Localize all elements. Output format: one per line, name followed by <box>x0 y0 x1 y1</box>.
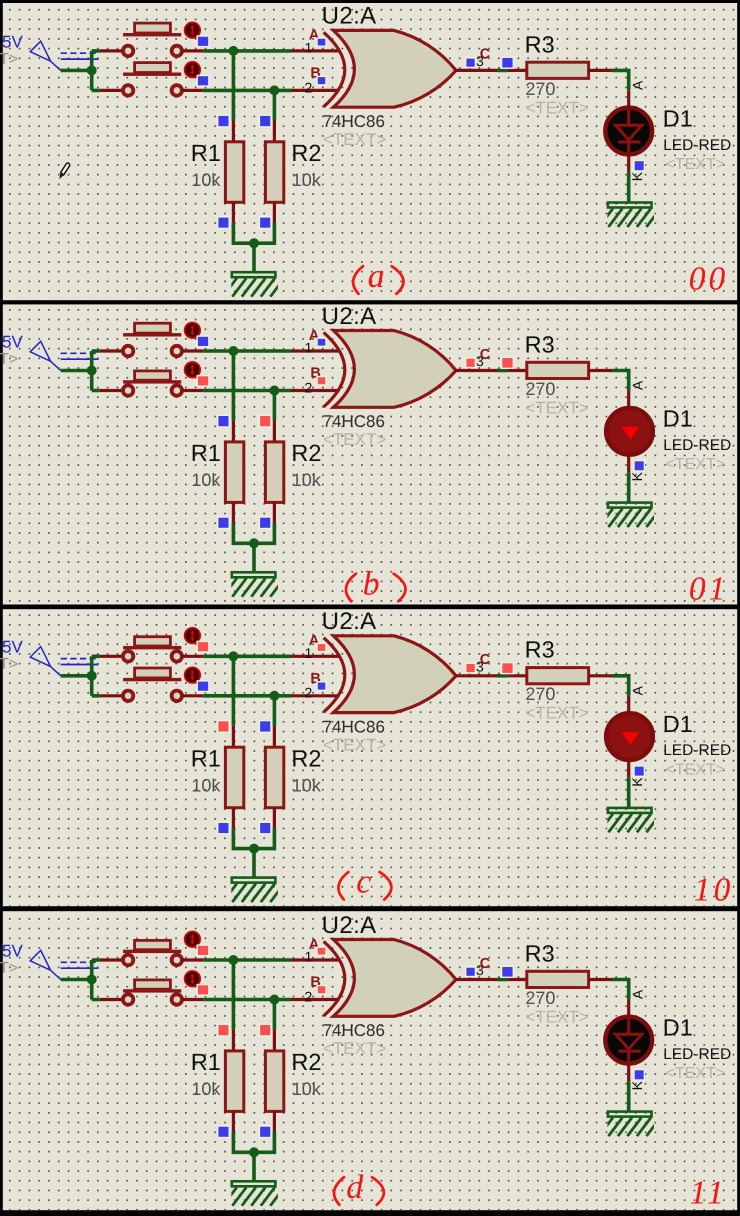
pin 1 stub U2:A <box>291 49 340 52</box>
power terminal 5V <box>0 32 99 70</box>
wire D1 to ground <box>627 472 631 503</box>
probe square pin A <box>317 947 326 955</box>
svg-text:R3: R3 <box>525 331 555 357</box>
probe square pin B <box>317 377 326 386</box>
resistor R2 <box>265 142 283 203</box>
R3 right lead <box>589 674 612 677</box>
wire net A <box>203 49 291 53</box>
wire stub to button B <box>100 389 124 392</box>
wire net C <box>497 369 507 373</box>
probe square A <box>197 641 209 652</box>
probe square R2 top <box>259 115 271 127</box>
svg-text:<TEXT>: <TEXT> <box>323 430 386 449</box>
svg-text:T>: T> <box>0 351 18 368</box>
svg-text:2: 2 <box>305 988 313 1004</box>
R2 bottom lead <box>273 808 276 829</box>
probe square A <box>197 36 209 47</box>
svg-text:C: C <box>480 47 491 63</box>
R3 left lead <box>507 674 527 677</box>
svg-text:LED-RED: LED-RED <box>663 437 731 454</box>
op-amp U2:A XOR gate 74HC86 <box>324 940 456 1017</box>
svg-text:U2:A: U2:A <box>322 303 377 330</box>
ground mid <box>223 878 284 903</box>
probe square A <box>197 336 209 347</box>
pin 1 stub U2:A <box>291 655 340 658</box>
wire button B out <box>182 694 204 697</box>
pin 3 stub U2:A <box>456 369 498 372</box>
junction node B <box>269 995 279 1005</box>
wire 5V feed <box>61 351 100 391</box>
svg-text:5V: 5V <box>2 941 23 960</box>
wire button B out <box>182 998 204 1001</box>
probe square net C <box>502 966 514 977</box>
probe square cathode <box>634 461 644 471</box>
wire net A <box>203 958 291 962</box>
ground LED <box>599 1112 661 1137</box>
junction node B <box>269 85 279 95</box>
svg-text:K: K <box>629 1080 645 1090</box>
R1 top lead <box>232 726 235 747</box>
svg-text:<TEXT>: <TEXT> <box>666 1065 726 1082</box>
probe square R2 top <box>259 1024 271 1036</box>
D1 anode lead <box>627 90 630 106</box>
svg-text:C: C <box>480 347 491 363</box>
svg-text:74HC86: 74HC86 <box>323 412 385 431</box>
probe square net C <box>502 663 514 674</box>
wire 5V feed <box>61 51 100 91</box>
probe square cathode <box>634 161 644 171</box>
R1 bottom lead <box>232 202 235 223</box>
power terminal 5V <box>0 332 99 370</box>
probe square R1 bottom <box>218 517 230 529</box>
R1 bottom lead <box>232 808 235 829</box>
svg-text:<TEXT>: <TEXT> <box>323 130 386 149</box>
ground mid <box>223 572 284 597</box>
pin 2 stub U2:A <box>291 998 340 1001</box>
svg-text:D1: D1 <box>663 406 693 432</box>
probe square pin A <box>317 643 326 651</box>
wire net B <box>203 694 291 698</box>
R2 top lead <box>273 726 276 747</box>
wire D1 to ground <box>627 778 631 809</box>
svg-text:D1: D1 <box>663 106 693 132</box>
probe square R1 top <box>218 115 230 127</box>
R1 bottom lead <box>232 1111 235 1132</box>
pushbutton A <box>123 323 200 357</box>
svg-text:d: d <box>346 1169 364 1206</box>
R1 bottom lead <box>232 502 235 523</box>
junction node A <box>228 346 238 356</box>
svg-text:5V: 5V <box>2 638 23 657</box>
probe square B <box>197 985 209 996</box>
wire node A to R1 <box>232 51 236 121</box>
svg-text:10k: 10k <box>191 470 221 490</box>
D1 cathode lead <box>627 456 630 472</box>
wire stub to button B <box>100 998 124 1001</box>
resistor R2 <box>265 1051 283 1112</box>
probe square pin 3 <box>466 58 476 68</box>
svg-text:C: C <box>480 652 491 668</box>
svg-text:270: 270 <box>525 684 555 704</box>
svg-text:R1: R1 <box>191 745 221 771</box>
resistor R1 <box>225 142 243 203</box>
svg-text:c: c <box>356 864 371 901</box>
svg-text:10: 10 <box>694 871 734 908</box>
probe square R2 top <box>259 415 271 427</box>
svg-text:10k: 10k <box>191 775 221 795</box>
svg-text:<TEXT>: <TEXT> <box>525 1007 588 1026</box>
pin 2 stub U2:A <box>291 694 340 697</box>
D1 cathode lead <box>627 1065 630 1081</box>
probe square R1 bottom <box>218 822 230 834</box>
wire stub to button A <box>100 655 124 658</box>
pin label K cathode <box>629 777 645 787</box>
svg-text:A: A <box>629 989 645 999</box>
junction node A <box>228 955 238 965</box>
junction node A <box>228 46 238 56</box>
wire net B <box>203 998 291 1002</box>
svg-text:R1: R1 <box>191 140 221 166</box>
probe square pin A <box>317 338 326 346</box>
junction node B <box>269 386 279 396</box>
R2 bottom lead <box>273 502 276 523</box>
LED D1 on <box>606 408 653 455</box>
svg-text:74HC86: 74HC86 <box>323 718 385 737</box>
D1 cathode lead <box>627 761 630 777</box>
R1 top lead <box>232 121 235 142</box>
pushbutton B <box>123 971 200 1005</box>
pushbutton A <box>123 932 200 966</box>
svg-text:01: 01 <box>689 570 729 607</box>
svg-text:10k: 10k <box>292 1079 322 1099</box>
wire stub to button A <box>100 49 124 52</box>
probe square A <box>197 945 209 956</box>
svg-text:A: A <box>629 380 645 390</box>
junction node A <box>228 651 238 661</box>
pushbutton B <box>123 62 200 96</box>
probe square cathode <box>634 766 644 776</box>
svg-text:R2: R2 <box>291 440 321 466</box>
resistor R3 <box>527 668 589 684</box>
wire net B <box>203 89 291 93</box>
probe square pin 3 <box>466 358 476 368</box>
svg-text:<TEXT>: <TEXT> <box>525 704 588 723</box>
ground mid <box>223 1181 284 1206</box>
R1 top lead <box>232 421 235 442</box>
pencil cursor <box>59 163 69 179</box>
caption letter <box>334 1169 384 1206</box>
D1 anode lead <box>627 390 630 406</box>
wire node B to R2 <box>273 391 277 421</box>
svg-text:2: 2 <box>305 79 313 95</box>
wire node B to R2 <box>273 1000 277 1030</box>
resistor R3 <box>527 362 589 378</box>
ground LED <box>599 503 661 528</box>
svg-text:K: K <box>629 171 645 181</box>
svg-text:74HC86: 74HC86 <box>323 112 385 131</box>
pin 1 stub U2:A <box>291 958 340 961</box>
R2 top lead <box>273 421 276 442</box>
probe square R2 bottom <box>259 517 271 529</box>
probe square pin 3 <box>466 663 476 673</box>
junction 5V node <box>87 65 97 75</box>
probe square pin A <box>317 38 326 46</box>
caption letter <box>338 864 391 901</box>
resistor R3 <box>527 971 589 987</box>
probe square R2 bottom <box>259 217 271 229</box>
pin label A anode <box>629 989 645 999</box>
caption letter <box>346 565 406 602</box>
wire node B to R2 <box>273 90 277 120</box>
wire stub to button A <box>100 349 124 352</box>
wire button A out <box>182 49 204 52</box>
wire R3 to D1 <box>612 371 629 391</box>
svg-text:U2:A: U2:A <box>322 3 377 30</box>
pin label K cathode <box>629 171 645 181</box>
pushbutton A <box>123 628 200 662</box>
junction 5V node <box>87 671 97 681</box>
R2 top lead <box>273 121 276 142</box>
wire R1 R2 to ground <box>233 523 274 573</box>
wire net A <box>203 349 291 353</box>
svg-text:U2:A: U2:A <box>322 608 377 635</box>
svg-text:00: 00 <box>689 261 729 298</box>
D1 cathode lead <box>627 156 630 172</box>
wire stub to button B <box>100 694 124 697</box>
resistor R1 <box>225 747 243 808</box>
svg-text:T>: T> <box>0 656 18 673</box>
R1 top lead <box>232 1030 235 1051</box>
svg-text:U2:A: U2:A <box>322 912 377 939</box>
svg-text:R3: R3 <box>525 637 555 663</box>
junction ground node <box>249 844 259 854</box>
probe square pin 3 <box>466 967 476 977</box>
pin 3 stub U2:A <box>456 69 498 72</box>
pin 2 stub U2:A <box>291 389 340 392</box>
pin label A anode <box>629 80 645 90</box>
R2 bottom lead <box>273 202 276 223</box>
probe square cathode <box>634 1070 644 1080</box>
probe square R1 bottom <box>218 217 230 229</box>
wire node B to R2 <box>273 696 277 726</box>
junction 5V node <box>87 975 97 985</box>
svg-text:<TEXT>: <TEXT> <box>323 736 386 755</box>
svg-text:270: 270 <box>525 79 555 99</box>
wire button B out <box>182 89 204 92</box>
R3 right lead <box>589 69 612 72</box>
pin label K cathode <box>629 471 645 481</box>
svg-text:270: 270 <box>525 988 555 1008</box>
svg-text:A: A <box>629 80 645 90</box>
probe square B <box>197 376 209 387</box>
wire net C <box>497 69 507 73</box>
LED D1 on <box>606 713 653 760</box>
pushbutton A <box>123 22 200 56</box>
svg-text:D1: D1 <box>663 711 693 737</box>
caption letter <box>353 258 403 295</box>
D1 anode lead <box>627 696 630 712</box>
wire R1 R2 to ground <box>233 223 274 273</box>
junction ground node <box>249 538 259 548</box>
probe square R1 top <box>218 721 230 733</box>
wire D1 to ground <box>627 172 631 203</box>
ground LED <box>599 203 661 228</box>
probe square R2 bottom <box>259 1126 271 1138</box>
svg-text:T>: T> <box>0 960 18 977</box>
svg-text:R1: R1 <box>191 440 221 466</box>
resistor R3 <box>527 62 589 78</box>
op-amp U2:A XOR gate 74HC86 <box>324 30 456 107</box>
wire net C <box>497 978 507 982</box>
probe square pin B <box>317 682 326 691</box>
svg-text:C: C <box>480 956 491 972</box>
svg-text:R1: R1 <box>191 1049 221 1075</box>
svg-text:5V: 5V <box>2 32 23 51</box>
wire button A out <box>182 958 204 961</box>
svg-text:LED-RED: LED-RED <box>663 1046 731 1063</box>
wire R3 to D1 <box>612 980 629 1000</box>
svg-text:10k: 10k <box>292 775 322 795</box>
pin label K cathode <box>629 1080 645 1090</box>
pin 1 stub U2:A <box>291 349 340 352</box>
wire R1 R2 to ground <box>233 828 274 878</box>
power terminal 5V <box>0 638 99 676</box>
probe square B <box>197 76 209 87</box>
R2 top lead <box>273 1030 276 1051</box>
svg-text:<TEXT>: <TEXT> <box>666 156 726 173</box>
wire D1 to ground <box>627 1081 631 1112</box>
wire node A to R1 <box>232 351 236 421</box>
svg-text:a: a <box>368 258 385 295</box>
probe square R1 top <box>218 415 230 427</box>
svg-text:<TEXT>: <TEXT> <box>666 456 726 473</box>
R3 left lead <box>507 978 527 981</box>
LED D1 off <box>605 1017 652 1064</box>
svg-text:10k: 10k <box>191 1079 221 1099</box>
svg-text:R3: R3 <box>525 940 555 966</box>
svg-text:A: A <box>629 685 645 695</box>
probe square net C <box>502 357 514 368</box>
svg-text:5V: 5V <box>2 332 23 351</box>
pushbutton B <box>123 362 200 396</box>
svg-text:2: 2 <box>305 685 313 701</box>
junction node B <box>269 691 279 701</box>
svg-text:R2: R2 <box>291 140 321 166</box>
pin 2 stub U2:A <box>291 89 340 92</box>
op-amp U2:A XOR gate 74HC86 <box>324 331 456 408</box>
probe square pin B <box>317 76 326 85</box>
R2 bottom lead <box>273 1111 276 1132</box>
svg-text:T>: T> <box>0 51 18 68</box>
pin 3 stub U2:A <box>456 674 498 677</box>
wire net A <box>203 654 291 658</box>
svg-text:R2: R2 <box>291 1049 321 1075</box>
wire node A to R1 <box>232 656 236 726</box>
svg-text:10k: 10k <box>292 170 322 190</box>
svg-text:K: K <box>629 777 645 787</box>
wire 5V feed <box>61 960 100 1000</box>
wire 5V feed <box>61 656 100 696</box>
pin label A anode <box>629 685 645 695</box>
junction 5V node <box>87 366 97 376</box>
wire R1 R2 to ground <box>233 1132 274 1182</box>
resistor R2 <box>265 747 283 808</box>
svg-text:11: 11 <box>690 1174 727 1211</box>
ground LED <box>599 808 661 833</box>
wire R3 to D1 <box>612 676 629 696</box>
svg-text:10k: 10k <box>292 470 322 490</box>
wire button A out <box>182 349 204 352</box>
wire stub to button B <box>100 89 124 92</box>
resistor R1 <box>225 1051 243 1112</box>
svg-text:<TEXT>: <TEXT> <box>323 1039 386 1058</box>
wire net B <box>203 389 291 393</box>
svg-text:LED-RED: LED-RED <box>663 742 731 759</box>
junction ground node <box>249 1147 259 1157</box>
probe square pin B <box>317 986 326 995</box>
ground mid <box>223 272 284 297</box>
pin 3 stub U2:A <box>456 978 498 981</box>
probe square B <box>197 681 209 692</box>
svg-text:R2: R2 <box>291 745 321 771</box>
D1 anode lead <box>627 999 630 1015</box>
wire stub to button A <box>100 958 124 961</box>
resistor R1 <box>225 442 243 503</box>
R3 right lead <box>589 369 612 372</box>
svg-text:<TEXT>: <TEXT> <box>525 98 588 117</box>
svg-text:<TEXT>: <TEXT> <box>525 398 588 417</box>
svg-text:D1: D1 <box>663 1015 693 1041</box>
R3 left lead <box>507 69 527 72</box>
power terminal 5V <box>0 941 99 979</box>
wire R3 to D1 <box>612 70 629 90</box>
junction ground node <box>249 238 259 248</box>
pushbutton B <box>123 667 200 701</box>
svg-text:b: b <box>363 565 380 602</box>
wire node A to R1 <box>232 960 236 1030</box>
probe square R1 top <box>218 1024 230 1036</box>
R3 left lead <box>507 369 527 372</box>
op-amp U2:A XOR gate 74HC86 <box>324 636 456 713</box>
svg-text:74HC86: 74HC86 <box>323 1021 385 1040</box>
svg-text:LED-RED: LED-RED <box>663 137 731 154</box>
wire net C <box>497 674 507 678</box>
wire button B out <box>182 389 204 392</box>
pin label A anode <box>629 380 645 390</box>
LED D1 off <box>605 108 652 155</box>
probe square R2 bottom <box>259 822 271 834</box>
probe square net C <box>502 57 514 68</box>
resistor R2 <box>265 442 283 503</box>
probe square R1 bottom <box>218 1126 230 1138</box>
svg-text:R3: R3 <box>525 31 555 57</box>
svg-text:2: 2 <box>305 379 313 395</box>
probe square R2 top <box>259 721 271 733</box>
R3 right lead <box>589 978 612 981</box>
svg-text:K: K <box>629 471 645 481</box>
svg-text:10k: 10k <box>191 170 221 190</box>
wire button A out <box>182 655 204 658</box>
svg-text:270: 270 <box>525 379 555 399</box>
svg-text:<TEXT>: <TEXT> <box>666 762 726 779</box>
